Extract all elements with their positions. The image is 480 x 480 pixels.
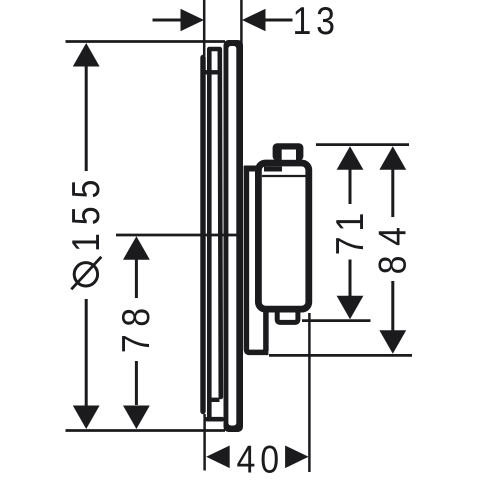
svg-text:155: 155: [64, 172, 108, 252]
svg-text:84: 84: [370, 217, 414, 274]
svg-text:78: 78: [114, 301, 158, 354]
svg-text:13: 13: [293, 0, 340, 42]
svg-text:40: 40: [237, 437, 284, 480]
svg-text:71: 71: [328, 208, 372, 255]
